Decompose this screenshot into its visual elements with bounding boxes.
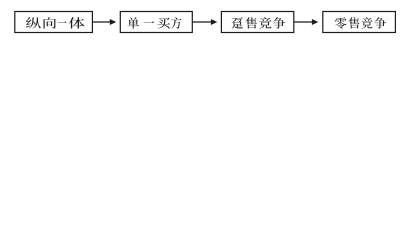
box4 零售竞争 rect [323, 12, 396, 33]
box1 纵向一体 rect [15, 12, 93, 33]
text box3 趸售竞争 [232, 17, 285, 29]
arrow A1 box1→box2 shaft [92, 21, 110, 23]
text box4 零售竞争 [335, 17, 386, 29]
text box2 单一买方 [127, 17, 181, 28]
arrow A3 box3→box4 shaft [294, 21, 313, 23]
arrow A1 box1→box2 head [110, 19, 116, 25]
flow diagram: 纵向一体 → 单一买方 → 趸售竞争 → 零售竞争 [0, 0, 414, 44]
box2 单一买方 rect [120, 12, 192, 33]
arrow A2 box2→box3 shaft [192, 21, 211, 23]
arrow A3 box3→box4 head [312, 19, 318, 25]
text box1 纵向一体 [26, 17, 84, 28]
arrow A2 box2→box3 head [211, 19, 217, 25]
box3 趸售竞争 rect [221, 12, 293, 33]
